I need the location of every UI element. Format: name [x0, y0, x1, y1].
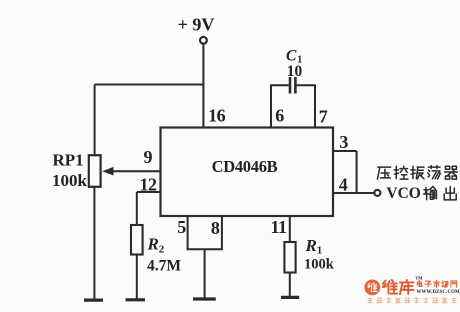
svg-text:3: 3	[339, 132, 348, 152]
svg-text:7: 7	[319, 106, 328, 126]
resistor R1	[284, 242, 295, 273]
watermark text 电子市场网	[417, 280, 456, 287]
watermark logo circle 维库	[364, 280, 380, 296]
wire pin 11 to R1	[289, 216, 291, 242]
svg-text:CD4046B: CD4046B	[212, 157, 278, 176]
svg-text:2: 2	[159, 244, 165, 256]
svg-text:4.7M: 4.7M	[147, 258, 181, 275]
wire R1 bottom to ground	[289, 273, 291, 297]
output terminal VCO	[374, 190, 380, 196]
svg-text:R: R	[147, 235, 159, 254]
svg-text:9: 9	[144, 147, 153, 167]
svg-text:16: 16	[208, 106, 226, 126]
wire pin 12 to R2	[137, 192, 161, 225]
svg-text:WWW.DZSC.COM: WWW.DZSC.COM	[417, 290, 460, 295]
op-amp / IC U1 CD4046B body	[161, 128, 334, 217]
wiper arrow RP1 wiper to pin 9	[102, 167, 160, 176]
wire RP1 bottom to ground	[93, 187, 95, 299]
capacitor C1 plates	[290, 77, 295, 94]
svg-text:VCO: VCO	[386, 185, 420, 202]
supply terminal +9V	[200, 37, 207, 44]
label R2	[147, 235, 165, 256]
wire R2 bottom to ground	[136, 255, 138, 299]
ground (R2)	[126, 298, 146, 301]
watermark slogan row	[368, 298, 457, 303]
wire branch to RP1 top	[95, 85, 205, 156]
watermark text 维库	[383, 280, 414, 294]
ground (R1)	[281, 296, 299, 299]
svg-text:R: R	[305, 236, 317, 255]
svg-text:TM: TM	[415, 275, 423, 280]
svg-text:RP1: RP1	[53, 151, 84, 170]
potentiometer RP1	[89, 155, 101, 187]
wire pin 3 to junction	[333, 151, 357, 193]
wire pins 5 and 8 to common ground	[187, 216, 223, 298]
svg-text:100k: 100k	[52, 171, 88, 190]
label C1	[286, 48, 302, 66]
svg-text:C: C	[286, 48, 297, 65]
label R1	[305, 236, 323, 256]
wire pin 4 to VCO output terminal	[333, 192, 374, 194]
svg-text:8: 8	[211, 218, 220, 238]
svg-text:12: 12	[140, 174, 158, 194]
svg-text:1: 1	[317, 244, 323, 256]
svg-text:100k: 100k	[304, 256, 335, 272]
svg-text:11: 11	[270, 217, 287, 237]
label VCO 输出 (VCO output)	[386, 185, 456, 202]
resistor R2	[131, 225, 143, 255]
wire pin 6 up to C1	[270, 85, 289, 127]
ground (pins 5,8)	[193, 297, 216, 300]
svg-text:+ 9V: + 9V	[178, 15, 215, 35]
svg-text:5: 5	[177, 217, 186, 237]
ground (RP1)	[84, 299, 103, 302]
wire pin 7 up to C1	[296, 85, 316, 127]
label 压控振荡器 (voltage-controlled oscillator)	[377, 166, 457, 179]
svg-text:6: 6	[275, 106, 284, 126]
wire +9V down to pin 16	[202, 44, 204, 128]
svg-text:4: 4	[339, 175, 348, 195]
svg-text:10: 10	[287, 63, 303, 80]
